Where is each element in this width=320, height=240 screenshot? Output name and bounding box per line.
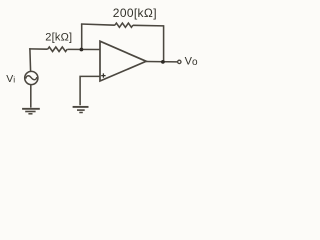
- wire: output from apex to terminal: [146, 61, 178, 63]
- op-amp U1 triangle: [100, 41, 146, 81]
- svg-text:Vo: Vo: [185, 56, 198, 68]
- wire: feedback tap vertical up: [81, 24, 83, 49]
- resistor R1 2[kOhm] zigzag: [48, 47, 68, 52]
- ground (op-amp +) bar 2: [77, 109, 85, 111]
- output terminal open circle: [178, 60, 181, 63]
- sine wave inside source: [26, 76, 37, 80]
- wire: vertical from input corner down to AC source top: [30, 48, 31, 71]
- ground (op-amp +) bar 3: [79, 112, 83, 114]
- wire: input horizontal from source corner to op-amp inverting input: [29, 48, 48, 50]
- junction: output node: [161, 60, 165, 64]
- minus sign at inverting input: [103, 48, 107, 50]
- svg-text:2[kΩ]: 2[kΩ]: [45, 31, 72, 43]
- wire: source bottom down to ground: [30, 85, 32, 108]
- ground (op-amp +) bar 1: [73, 106, 89, 108]
- wire: non-inverting input to ground: [80, 76, 100, 105]
- ground (under source) bar 2: [25, 111, 35, 113]
- svg-text:200[kΩ]: 200[kΩ]: [113, 6, 157, 20]
- svg-text:Vi: Vi: [6, 73, 15, 85]
- resistor R2 200[kOhm] zigzag: [115, 23, 133, 27]
- wire: feedback top right segment: [133, 24, 164, 27]
- junction: inverting input / feedback tap: [80, 48, 84, 52]
- plus sign at non-inverting input: [101, 73, 105, 77]
- ground (under source) bar 1: [22, 108, 40, 110]
- voltage source Vi (AC) circle: [25, 71, 38, 84]
- wire: feedback top left segment: [81, 24, 115, 25]
- ground (under source) bar 3: [28, 113, 32, 115]
- wire: feedback vertical down to output node: [163, 25, 165, 62]
